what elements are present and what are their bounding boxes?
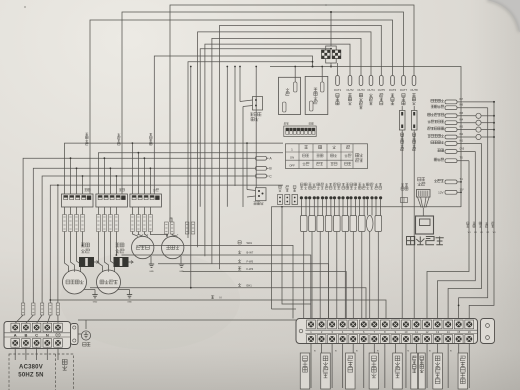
svg-text:W1: W1	[493, 232, 496, 234]
svg-text:z: z	[147, 234, 148, 236]
svg-text:OUT3: OUT3	[357, 88, 365, 92]
svg-text:OUT2: OUT2	[346, 88, 354, 92]
svg-text:z: z	[137, 234, 138, 236]
svg-text:OUT6: OUT6	[389, 88, 397, 92]
svg-text:OUT5: OUT5	[378, 88, 386, 92]
svg-text:F-W5: F-W5	[247, 259, 254, 263]
svg-text:OFF: OFF	[289, 164, 295, 168]
svg-text:z: z	[177, 234, 178, 236]
svg-text:GND: GND	[149, 271, 154, 273]
svg-text:EH1: EH1	[247, 283, 253, 287]
svg-text:C: C	[35, 332, 38, 337]
svg-text:z: z	[142, 234, 143, 236]
svg-text:12V: 12V	[460, 189, 465, 191]
svg-text:OUT8: OUT8	[410, 88, 418, 92]
svg-text:A: A	[14, 332, 17, 337]
svg-text:N: N	[46, 332, 49, 337]
svg-text:GND: GND	[127, 302, 132, 304]
svg-text:z: z	[172, 234, 173, 236]
svg-text:GND: GND	[93, 302, 98, 304]
svg-text:z: z	[167, 234, 168, 236]
svg-text:OUT4: OUT4	[367, 88, 375, 92]
svg-text:W1: W1	[480, 232, 483, 234]
svg-text:OUT1: OUT1	[334, 88, 342, 92]
svg-text:W01: W01	[247, 241, 253, 245]
svg-text:OUT7: OUT7	[400, 88, 408, 92]
svg-text:W1: W1	[468, 232, 471, 234]
svg-text:ON: ON	[290, 155, 294, 159]
svg-text:12V: 12V	[438, 190, 443, 194]
svg-text:N: N	[220, 296, 222, 300]
svg-text:W1: W1	[474, 232, 477, 234]
svg-text:AC380V: AC380V	[19, 365, 43, 371]
svg-text:50HZ 5N: 50HZ 5N	[18, 373, 43, 379]
svg-text:W1: W1	[487, 232, 490, 234]
svg-text:CN5: CN5	[460, 149, 465, 151]
svg-text:F-W3: F-W3	[247, 267, 254, 271]
svg-text:B: B	[24, 332, 27, 337]
svg-text:B-W7: B-W7	[247, 251, 254, 255]
